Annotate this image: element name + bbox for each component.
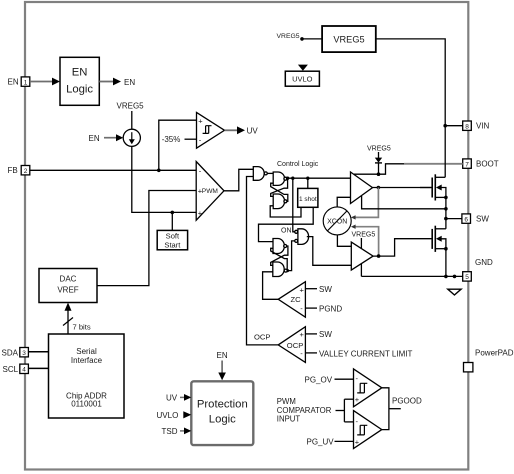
svg-text:+: + [300, 330, 305, 339]
wire PGOOD output join [382, 388, 389, 430]
junction on FB to UV comparator [157, 169, 161, 173]
svg-text:BOOT: BOOT [476, 160, 499, 169]
svg-text:SCL: SCL [3, 365, 19, 374]
wire XCON top to driver1 input [337, 197, 350, 207]
EN Logic box U1 [60, 57, 99, 105]
svg-text:DAC: DAC [60, 274, 77, 283]
svg-text:TSD: TSD [162, 427, 178, 436]
wire driver1 output to gate M1 [373, 187, 433, 189]
wire G4 out to driver 2 [307, 237, 352, 266]
svg-text:8: 8 [465, 123, 469, 130]
wire to VIN pin [445, 125, 463, 127]
Serial Interface block [49, 334, 125, 418]
LOWLEFT [28, 269, 124, 419]
wire 1shot right output to G5 [259, 207, 314, 241]
svg-text:6: 6 [464, 216, 468, 223]
op-amp OCP comparator [278, 327, 305, 363]
svg-text:UVLO: UVLO [157, 411, 179, 420]
wire VREG5 out to VIN rail [376, 39, 445, 126]
wire to VREG5 block [302, 38, 322, 40]
junction M2 source [444, 247, 448, 251]
svg-text:Start: Start [164, 240, 181, 249]
wire PWM output to gate G1 [224, 169, 253, 191]
svg-text:Soft: Soft [166, 232, 180, 241]
svg-text:Protection: Protection [197, 399, 248, 411]
svg-text:+: + [198, 116, 203, 125]
wire SDA [28, 351, 48, 353]
wire -35% to UV comparator [185, 138, 197, 140]
wire current source down to lower PWM input [132, 146, 196, 212]
wire XCON bottom to driver2 input [337, 235, 351, 246]
svg-text:Logic: Logic [66, 83, 93, 95]
svg-text:+: + [198, 208, 203, 217]
wire VREG5 into driver2 [360, 238, 362, 249]
svg-text:FB: FB [8, 166, 18, 175]
latch cross-couple G5 G6 [271, 246, 288, 265]
wire GND rail [361, 275, 462, 277]
svg-text:-35%: -35% [162, 135, 181, 144]
wire SCL [28, 367, 48, 369]
svg-text:1: 1 [24, 79, 28, 86]
CTRL [224, 146, 463, 345]
gate G2 nand [273, 172, 284, 185]
wire G1 to G2 [267, 172, 273, 174]
pin 1 EN [21, 77, 30, 86]
wire gray XCON sense low [355, 227, 379, 256]
junction GND rail [444, 275, 448, 279]
svg-text:SW: SW [319, 330, 332, 339]
hysteresis symbol PG_OV [357, 383, 367, 393]
svg-text:VREG5: VREG5 [277, 33, 300, 40]
junction diode to supply rail [377, 172, 381, 176]
wire VIN rail down to M1 drain [444, 126, 446, 177]
op-amp UV comparator [197, 112, 225, 148]
op-amp ZC comparator [278, 282, 305, 318]
svg-text:Serial: Serial [76, 347, 97, 356]
junction M1 source [444, 196, 448, 200]
wire UV output arrow [225, 129, 239, 131]
svg-text:PWM: PWM [202, 188, 218, 195]
UVLO block [285, 71, 319, 86]
Protection Logic block [191, 381, 253, 445]
svg-text:EN: EN [8, 78, 19, 87]
transistor M1 high side [431, 178, 433, 198]
gate G5 nand [273, 239, 284, 254]
junction SW [444, 217, 448, 221]
pin 4 SCL [20, 364, 29, 373]
wire G6 output to G4 lower input [287, 241, 295, 271]
svg-text:2: 2 [24, 168, 28, 175]
DAC VREF block [39, 269, 97, 303]
wire PG_OV to comparator [335, 378, 354, 380]
svg-text:Control Logic: Control Logic [277, 161, 319, 168]
wire ZC + input SW [305, 288, 317, 290]
svg-text:VREG5: VREG5 [367, 146, 391, 153]
diode D1 bootstrap [378, 152, 380, 158]
current source I1 [123, 129, 140, 146]
svg-text:Logic: Logic [209, 413, 236, 425]
svg-text:VREG5: VREG5 [333, 35, 364, 45]
block 1 shot [298, 188, 318, 207]
wire driver1 supply rail and BOOT step [354, 164, 404, 174]
hysteresis symbol PG_UV [357, 425, 367, 435]
wire 7-bit bus Serial to DAC [67, 310, 69, 335]
PowerPAD pad [464, 363, 473, 372]
junction VIN [443, 124, 447, 128]
wire VREG5 to current source [131, 111, 133, 129]
driver U3 low side [351, 242, 373, 270]
svg-text:Interface: Interface [71, 356, 103, 365]
gate G6 nand [273, 262, 284, 277]
svg-text:7 bits: 7 bits [73, 323, 91, 332]
junction dot [300, 37, 304, 41]
svg-text:PG_OV: PG_OV [305, 376, 333, 385]
svg-text:VIN: VIN [476, 122, 490, 131]
hysteresis symbol in UV comparator [203, 126, 212, 134]
PG [277, 369, 422, 449]
pin 7 BOOT [463, 159, 472, 168]
wire EN arrow into current source [104, 137, 117, 139]
svg-text:SW: SW [319, 285, 332, 294]
svg-text:+: + [355, 437, 360, 446]
junction driver1 ref [444, 207, 448, 211]
wire ZC feedback to G6 [263, 272, 279, 300]
svg-text:SW: SW [476, 215, 489, 224]
svg-text:PGND: PGND [319, 304, 342, 313]
svg-text:PG_UV: PG_UV [307, 438, 335, 447]
svg-text:GND: GND [475, 258, 493, 267]
gate G1 nand [253, 167, 264, 181]
wire OCP + input SW [305, 333, 317, 335]
junction gate sense [377, 186, 381, 190]
svg-text:OCP: OCP [254, 332, 270, 341]
svg-text:SDA: SDA [2, 348, 19, 357]
op-amp PWM comparator [196, 162, 224, 221]
wire ctrl line to driver 1 [287, 177, 351, 179]
svg-text:EN: EN [72, 66, 88, 78]
latch cross-couple G2 G3 [271, 178, 288, 196]
wire FB up to UV comparator + [159, 120, 197, 170]
wire soft start to lower input [171, 212, 173, 230]
svg-text:UV: UV [166, 394, 178, 403]
svg-text:UVLO: UVLO [292, 75, 313, 84]
POWER [361, 126, 462, 295]
svg-text:5: 5 [465, 274, 469, 281]
svg-text:EN: EN [124, 78, 135, 87]
junction dots on ctrl line [286, 177, 289, 180]
svg-text:4: 4 [22, 367, 26, 374]
pin 2 FB [21, 166, 30, 175]
circle XCON [323, 207, 351, 235]
wire OCP feedback up to G1 [247, 177, 279, 345]
bus slash [63, 318, 73, 326]
wire driver2 ground drop [360, 264, 362, 277]
svg-text:EN: EN [89, 134, 100, 143]
svg-text:INPUT: INPUT [277, 415, 301, 424]
svg-text:+: + [355, 395, 360, 404]
svg-text:PowerPAD: PowerPAD [475, 349, 514, 358]
svg-text:UV: UV [247, 127, 259, 136]
svg-text:PWM: PWM [277, 397, 296, 406]
wire DAC VREF to PWM middle input [97, 191, 196, 286]
wire BOOT gray [404, 163, 463, 165]
pin 8 VIN [463, 121, 472, 130]
gate G4 and with negated inputs [295, 230, 298, 233]
svg-text:3: 3 [22, 350, 26, 357]
wire EN pin to EN Logic [30, 81, 53, 83]
PINS-RIGHT [462, 121, 514, 372]
UVLO input arrow [298, 65, 308, 71]
PINS-LEFT [2, 77, 30, 374]
op-amp PG_OV comparator [354, 369, 382, 407]
wire gray XCON sense high [355, 188, 379, 218]
TOPLEFT [30, 57, 136, 105]
pin 5 GND [463, 272, 472, 281]
wire PWM comp input bracket [336, 410, 345, 412]
svg-text:VREF: VREF [57, 285, 78, 294]
transistor M2 low side [431, 229, 433, 249]
svg-text:+: + [300, 285, 305, 294]
svg-text:EN: EN [217, 351, 228, 360]
junction low gate sense [377, 254, 381, 258]
pin 6 SW [462, 214, 471, 223]
wire 1shot drop [307, 178, 309, 188]
wire SW node vertical [445, 197, 447, 228]
driver U2 high side [351, 172, 373, 204]
svg-text:VALLEY CURRENT LIMIT: VALLEY CURRENT LIMIT [319, 349, 412, 358]
wire to SW pin [446, 218, 462, 220]
wire PGOOD stub [389, 408, 401, 410]
svg-text:PGOOD: PGOOD [392, 396, 422, 405]
Soft Start block [157, 230, 187, 249]
wire EN Logic output [99, 81, 114, 83]
wire PG_UV to comparator [335, 440, 354, 442]
ANALOG [30, 102, 259, 286]
svg-text:COMPARATOR: COMPARATOR [277, 406, 332, 415]
svg-text:VREG5: VREG5 [352, 232, 376, 239]
ground [448, 289, 461, 295]
svg-text:0110001: 0110001 [71, 400, 102, 409]
svg-text:VREG5: VREG5 [117, 102, 145, 111]
svg-text:7: 7 [465, 161, 469, 168]
wire M2 source to GND rail [445, 249, 447, 277]
svg-text:XCON: XCON [327, 219, 347, 226]
PROT [157, 351, 254, 445]
COMPS [254, 282, 412, 363]
wire driver1 ref to SW [362, 196, 446, 209]
svg-text:ON: ON [281, 228, 292, 235]
VREG5 regulator block [322, 26, 376, 52]
svg-text:1 shot: 1 shot [299, 196, 317, 203]
pin 3 SDA [20, 348, 29, 357]
op-amp PG_UV comparator [354, 411, 382, 449]
wire EN arrow into Protection Logic [221, 361, 223, 374]
wire 1shot left output to G3 [270, 206, 301, 217]
TOPRIGHT [277, 26, 463, 127]
wire FB line [30, 169, 196, 171]
wire vertical to ON gate [293, 178, 295, 232]
wire driver2 output to gate M2 [373, 239, 432, 256]
wire ZC - input PGND [305, 307, 317, 309]
junction soft start on lower input [171, 211, 175, 215]
wire OCP - input VALLEY [305, 352, 317, 354]
gate G3 nand [273, 194, 284, 209]
